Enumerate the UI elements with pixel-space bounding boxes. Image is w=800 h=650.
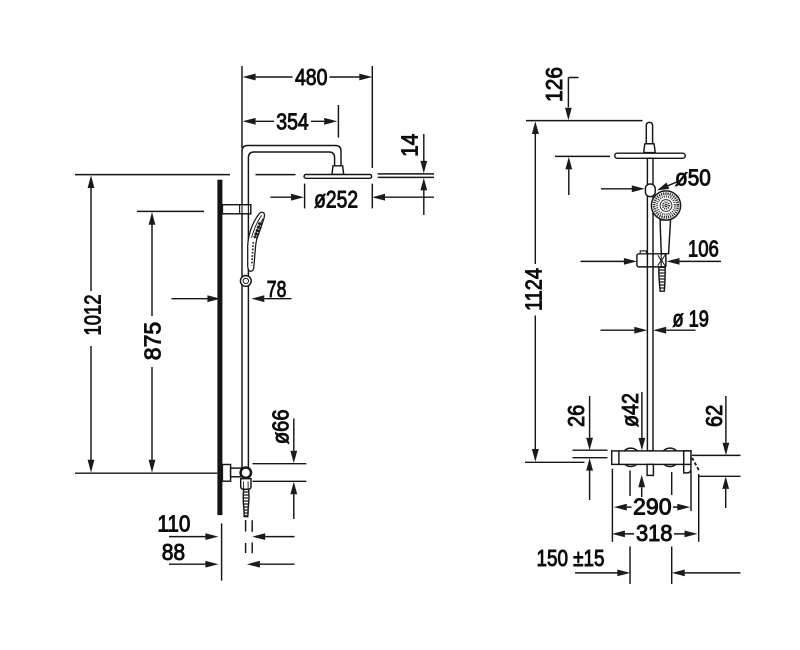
wall face extension line (below) <box>221 523 223 580</box>
arm connector nut (front) <box>644 144 656 153</box>
dim o252 <box>270 196 291 198</box>
hand shower face <box>651 191 680 220</box>
slider knob <box>240 276 251 287</box>
valve spindle (side) <box>231 468 241 477</box>
svg-text:78: 78 <box>267 276 287 302</box>
dim 1124 <box>532 121 539 134</box>
wire: riser pipe + top arm inner edge <box>248 152 334 468</box>
thermostat valve (front): mounting knobs <box>622 448 640 466</box>
hand shower handle (front) <box>660 220 671 254</box>
dim 1012 <box>88 175 95 188</box>
bottom reference line (mounting level) <box>75 472 217 474</box>
dim 150 +-15 <box>575 572 618 574</box>
dim 62 reference lines <box>692 455 741 476</box>
thermostat valve body (side) <box>222 465 230 482</box>
svg-text:354: 354 <box>276 109 309 135</box>
dim o42 arrows <box>641 392 643 438</box>
riser pipe tip <box>646 122 652 143</box>
svg-text:ø50: ø50 <box>675 165 711 191</box>
svg-text:110: 110 <box>157 511 190 537</box>
dim o50 <box>601 188 632 190</box>
dim 14 reference lines <box>378 174 434 178</box>
top reference line (unit top level) <box>75 174 296 176</box>
rain shower head plate (side) <box>304 175 372 179</box>
dim o66 arrows <box>293 419 295 451</box>
dim 26 arrows <box>589 396 591 438</box>
dim 480 <box>243 74 256 81</box>
dim 354 extension line right <box>337 105 339 138</box>
svg-text:1124: 1124 <box>521 268 547 311</box>
wire: riser pipe + top arm outer edge <box>242 146 341 469</box>
wire: riser pipe (front) <box>647 158 653 451</box>
svg-text:150 ±15: 150 ±15 <box>537 545 605 571</box>
svg-text:ø 19: ø 19 <box>672 306 709 332</box>
valve body bar <box>612 451 691 465</box>
shower hose (front) <box>659 267 665 291</box>
dim 354 <box>243 118 256 125</box>
dim 480/o252 extension line right <box>371 66 373 208</box>
outlet below valve <box>647 464 653 475</box>
svg-text:ø252: ø252 <box>314 187 358 214</box>
svg-text:290: 290 <box>633 494 672 520</box>
dim o66 reference lines <box>253 464 307 482</box>
svg-text:14: 14 <box>397 134 423 157</box>
slider bracket (front) <box>637 254 666 267</box>
dim 62 arrows <box>725 396 727 443</box>
dim 14 arrows <box>423 134 425 161</box>
wall <box>217 180 222 515</box>
hand shower (side) <box>248 212 265 271</box>
ball joint o50 <box>645 184 655 197</box>
svg-text:26: 26 <box>563 405 589 427</box>
875 upper reference line (bracket level) <box>137 210 204 212</box>
svg-text:480: 480 <box>295 64 328 90</box>
svg-text:875: 875 <box>139 322 165 361</box>
bottom reference line (valve level) <box>525 461 585 463</box>
hose leaving valve (dashes) <box>692 458 700 472</box>
hose outlet collar (side) <box>241 479 251 490</box>
outlet edge extension line <box>251 520 253 553</box>
dim 318 <box>612 531 625 538</box>
shower hose (side) <box>243 489 249 516</box>
extension lines below valve <box>611 469 613 542</box>
wall bracket (side) <box>222 205 250 214</box>
rain shower head plate (front) <box>615 153 685 158</box>
dim 78 <box>172 298 209 300</box>
dim o19 <box>601 329 635 331</box>
svg-text:ø42: ø42 <box>617 393 643 427</box>
svg-text:126: 126 <box>541 67 567 102</box>
svg-text:318: 318 <box>636 520 673 546</box>
svg-text:ø66: ø66 <box>267 409 293 444</box>
dim 290 <box>614 504 627 511</box>
valve knob (side) <box>241 468 251 478</box>
dim 110 <box>169 536 206 538</box>
svg-text:1012: 1012 <box>79 295 105 336</box>
shower arm nut <box>332 166 344 175</box>
hose elbow at valve right <box>684 451 691 473</box>
hose axis dashed line <box>245 520 247 553</box>
dim 126 <box>568 78 578 108</box>
dim 88 <box>169 563 206 565</box>
svg-text:88: 88 <box>162 539 185 565</box>
svg-text:106: 106 <box>688 236 719 262</box>
top reference line (pipe top level) <box>526 120 643 122</box>
dim 480 extension line left <box>241 66 243 148</box>
dim 875 <box>149 212 156 225</box>
dim 106 <box>581 260 625 262</box>
svg-text:62: 62 <box>701 405 727 427</box>
dim 26 reference lines <box>573 450 608 458</box>
